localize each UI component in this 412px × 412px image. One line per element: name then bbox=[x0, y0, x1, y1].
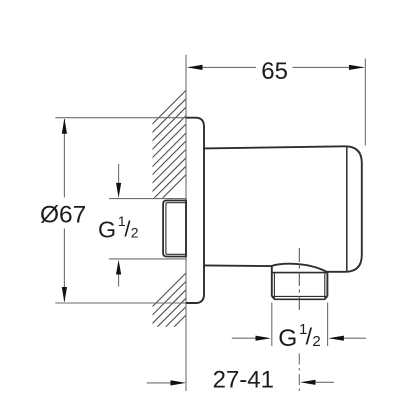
thread bottom with chamfers bbox=[272, 296, 328, 299]
centerline lower segment bbox=[298, 354, 300, 392]
body bottom edge bbox=[204, 264, 271, 267]
dimension line D67 bbox=[63, 119, 65, 198]
arrowhead D67 up bbox=[62, 118, 67, 134]
female connection in wall bbox=[163, 201, 186, 257]
arrowhead D67 down bbox=[62, 287, 67, 303]
cap seam line bbox=[346, 146, 348, 271]
dimension line 65 bbox=[189, 66, 257, 68]
svg-text:G: G bbox=[278, 325, 297, 352]
svg-text:2: 2 bbox=[312, 333, 320, 350]
extension line G1/2 upper bottom bbox=[109, 258, 186, 260]
outlet boss curve bbox=[271, 264, 327, 272]
thread relief line left bbox=[273, 273, 275, 300]
extension line G1/2 lower right bbox=[327, 303, 329, 347]
body outline top and cap bbox=[204, 146, 362, 271]
wall hatching bottom block bbox=[119, 220, 281, 412]
connection face on wall bbox=[185, 200, 187, 258]
wall face line bbox=[185, 55, 187, 391]
svg-text:27-41: 27-41 bbox=[213, 367, 274, 394]
svg-text:65: 65 bbox=[261, 58, 288, 85]
thread right edge bbox=[326, 272, 328, 297]
wall hatching top block bbox=[43, 88, 272, 208]
outlet centerline bbox=[298, 248, 300, 314]
arrow G1/2 lower right bbox=[328, 336, 344, 341]
female connection inner lines bbox=[166, 203, 186, 255]
dimension 27-41 left arrow bbox=[147, 382, 171, 384]
arrow G1/2 upper up bbox=[118, 275, 120, 287]
arrow G1/2 lower left bbox=[232, 337, 257, 339]
thread top edge bbox=[272, 272, 328, 274]
extension line 65 right bbox=[364, 59, 366, 146]
arrow G1/2 upper down bbox=[118, 164, 120, 184]
thread root line bbox=[272, 295, 328, 297]
extension line G1/2 lower left bbox=[271, 303, 273, 347]
extension line D67 top bbox=[55, 117, 186, 119]
flange escutcheon plate bbox=[186, 118, 204, 303]
svg-text:G: G bbox=[98, 217, 116, 243]
thread relief line right bbox=[324, 273, 326, 300]
svg-text:2: 2 bbox=[131, 225, 139, 241]
arrowhead 65 left bbox=[187, 65, 203, 70]
extension line D67 bottom bbox=[55, 302, 195, 304]
outlet thread left edge bbox=[271, 266, 273, 296]
extension line G1/2 upper top bbox=[109, 198, 186, 200]
arrowhead 65 right bbox=[349, 65, 365, 70]
dimension 27-41 right arrow bbox=[300, 380, 316, 385]
svg-text:Ø67: Ø67 bbox=[40, 201, 86, 228]
